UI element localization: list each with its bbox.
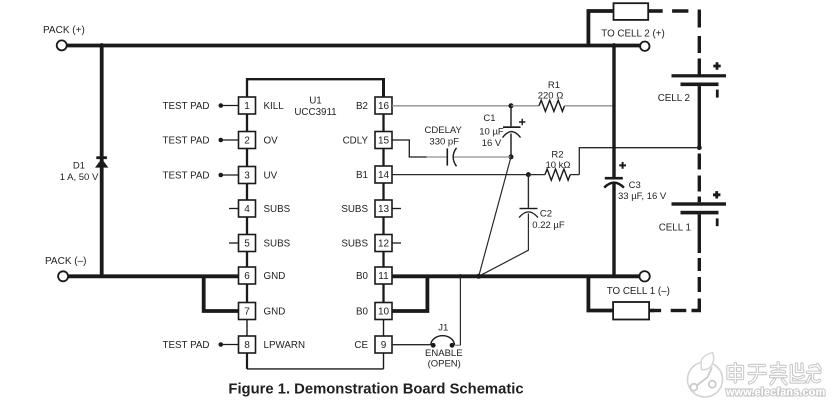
pin 15 box bbox=[375, 132, 392, 149]
label J1 bbox=[425, 323, 463, 370]
svg-text:CE: CE bbox=[354, 340, 368, 351]
junction dot B2 node bbox=[509, 103, 514, 108]
pin 16 box bbox=[375, 97, 392, 114]
svg-text:ENABLE: ENABLE bbox=[425, 348, 463, 359]
fuse jumper top (TO CELL 2 path) bbox=[614, 3, 649, 20]
svg-text:7: 7 bbox=[244, 307, 250, 318]
wire CELL1 negative stem down bbox=[698, 214, 701, 253]
watermark logo elecfans bbox=[688, 353, 723, 398]
resistor R1 bbox=[511, 100, 612, 111]
wire jumper top right lead bbox=[648, 9, 663, 13]
wire C3 drop from PACK+ rail bbox=[612, 46, 615, 178]
svg-text:www.elecfans.com: www.elecfans.com bbox=[725, 387, 825, 399]
svg-text:TO CELL 1 (–): TO CELL 1 (–) bbox=[607, 286, 670, 297]
pin 5 box bbox=[239, 235, 256, 252]
wire dashed mid node down to CELL 1 bbox=[698, 154, 701, 203]
svg-text:2: 2 bbox=[244, 136, 250, 147]
capacitor C3 bbox=[604, 162, 626, 188]
junction dot PACK+ rail / C3 drop bbox=[612, 43, 617, 48]
svg-text:CELL 1: CELL 1 bbox=[659, 223, 691, 234]
svg-text:6: 6 bbox=[244, 271, 250, 282]
pin 6 box bbox=[239, 267, 256, 284]
diode D1 bbox=[95, 156, 108, 167]
svg-text:PACK (–): PACK (–) bbox=[45, 256, 87, 267]
svg-text:SUBS: SUBS bbox=[264, 239, 291, 250]
svg-text:220 Ω: 220 Ω bbox=[538, 90, 564, 101]
junction dot at left vertical / PACK+ rail bbox=[99, 43, 104, 48]
svg-text:8: 8 bbox=[244, 340, 250, 351]
wire branch down to bottom jumper bbox=[588, 276, 613, 310]
svg-text:SUBS: SUBS bbox=[341, 204, 368, 215]
svg-text:TEST PAD: TEST PAD bbox=[163, 101, 210, 112]
pin 13 box bbox=[375, 200, 392, 217]
capacitor C1 bbox=[503, 106, 526, 157]
wire R2 up and right to mid-cell node bbox=[579, 148, 699, 175]
wire stub pin 12 bbox=[392, 242, 401, 244]
svg-text:R1: R1 bbox=[548, 80, 560, 91]
svg-text:10 kΩ: 10 kΩ bbox=[545, 160, 570, 171]
watermark chinese text bbox=[728, 363, 820, 384]
svg-text:33 µF, 16 V: 33 µF, 16 V bbox=[618, 191, 667, 202]
wire pin15 CDLY to CDELAY cap bbox=[392, 140, 427, 157]
svg-text:16 V: 16 V bbox=[482, 138, 502, 149]
junction dot B1 node bbox=[526, 172, 531, 177]
svg-text:C2: C2 bbox=[540, 208, 552, 219]
wire dashed CELL1 to bottom corner bbox=[653, 258, 700, 311]
svg-text:CDLY: CDLY bbox=[343, 136, 369, 147]
node PACK (+) terminal bbox=[43, 25, 85, 50]
wire left vertical rail (PACK+ to PACK-) bbox=[100, 46, 104, 277]
svg-text:TEST PAD: TEST PAD bbox=[163, 340, 210, 351]
test pad pin 3 bbox=[163, 171, 239, 182]
wire stub pin 4 bbox=[229, 208, 239, 210]
wire PACK(+) main horizontal rail bbox=[67, 44, 640, 48]
svg-text:10: 10 bbox=[378, 307, 390, 318]
svg-text:OV: OV bbox=[264, 136, 279, 147]
svg-text:4: 4 bbox=[244, 204, 250, 215]
wire diagonal CDLY node to B0 rail bbox=[479, 157, 511, 276]
svg-text:SUBS: SUBS bbox=[341, 239, 368, 250]
pin 11 box bbox=[375, 267, 392, 284]
jumper J1 bbox=[431, 336, 461, 348]
svg-text:C3: C3 bbox=[629, 180, 641, 191]
wire pin9 CE to J1 bbox=[392, 344, 431, 346]
svg-text:SUBS: SUBS bbox=[264, 204, 291, 215]
node TO CELL 2 (+) terminal bbox=[601, 29, 664, 51]
label U1 UCC3911 bbox=[294, 96, 336, 118]
svg-text:PACK (+): PACK (+) bbox=[43, 25, 85, 36]
capacitor CDELAY 330pF bbox=[427, 148, 512, 167]
svg-text:11: 11 bbox=[378, 271, 389, 282]
node PACK (-) terminal bbox=[45, 256, 87, 281]
wire branch up to top jumper bbox=[588, 11, 613, 46]
svg-text:5: 5 bbox=[244, 239, 250, 250]
svg-text:13: 13 bbox=[378, 204, 390, 215]
wire C3 bottom stem to B0 rail bbox=[612, 184, 615, 277]
label C1 value bbox=[479, 113, 504, 149]
svg-text:1: 1 bbox=[244, 101, 250, 112]
svg-text:10 µF: 10 µF bbox=[479, 127, 504, 138]
svg-text:12: 12 bbox=[378, 239, 390, 250]
wire dashed corner vertical down to CELL 2 bbox=[698, 10, 701, 75]
svg-text:KILL: KILL bbox=[264, 101, 285, 112]
svg-text:UV: UV bbox=[264, 171, 278, 182]
pin 3 box bbox=[239, 167, 256, 184]
wire J1 up to B0 rail bbox=[459, 276, 461, 345]
svg-text:15: 15 bbox=[378, 136, 390, 147]
battery CELL 2 bbox=[672, 62, 727, 97]
wire CELL2 negative stem down to mid node bbox=[698, 86, 701, 148]
op-amp U1 UCC3911 IC body bbox=[247, 78, 384, 369]
test pad pin 8 bbox=[163, 340, 239, 351]
battery CELL 1 bbox=[672, 191, 727, 226]
svg-text:B1: B1 bbox=[356, 170, 368, 181]
fuse jumper bottom (TO CELL 1 path) bbox=[613, 302, 649, 320]
svg-text:TO CELL 2 (+): TO CELL 2 (+) bbox=[601, 29, 664, 40]
node TO CELL 1 (-) terminal bbox=[607, 271, 670, 297]
wire jumper bottom right lead bbox=[649, 309, 654, 313]
svg-text:14: 14 bbox=[378, 170, 390, 181]
svg-text:GND: GND bbox=[264, 307, 286, 318]
pin 2 box bbox=[239, 132, 256, 149]
label R2 value bbox=[545, 149, 570, 171]
test pad pin 2 bbox=[163, 136, 239, 147]
svg-text:GND: GND bbox=[264, 271, 286, 282]
pin 9 box bbox=[375, 336, 392, 353]
test pad pin 1 bbox=[163, 101, 239, 112]
svg-text:CDELAY: CDELAY bbox=[425, 125, 463, 136]
svg-text:B0: B0 bbox=[356, 271, 369, 282]
label C3 value bbox=[618, 180, 667, 202]
svg-text:LPWARN: LPWARN bbox=[264, 340, 306, 351]
capacitor C2 bbox=[479, 175, 538, 277]
svg-text:9: 9 bbox=[381, 340, 387, 351]
svg-text:D1: D1 bbox=[73, 161, 85, 172]
wire pin14 B1 to R2 node bbox=[392, 174, 528, 176]
svg-text:16: 16 bbox=[378, 101, 390, 112]
svg-text:J1: J1 bbox=[438, 323, 448, 334]
svg-text:Figure 1. Demonstration Board: Figure 1. Demonstration Board Schematic bbox=[228, 382, 523, 398]
svg-text:R2: R2 bbox=[551, 149, 563, 160]
pin 7 box bbox=[239, 303, 256, 320]
label pin names left column bbox=[264, 101, 306, 351]
svg-text:CELL 2: CELL 2 bbox=[658, 93, 690, 104]
wire GND pin7 branch (down and right) bbox=[204, 276, 239, 311]
pin 10 box bbox=[375, 303, 392, 320]
wire dashed to cell2 plus (horizontal dash) bbox=[672, 9, 688, 13]
label R1 value bbox=[538, 80, 564, 102]
wire pin10 B0 branch bbox=[392, 276, 427, 311]
svg-text:0.22 µF: 0.22 µF bbox=[532, 220, 565, 231]
svg-text:(OPEN): (OPEN) bbox=[428, 359, 461, 370]
junction dot J1 drop bbox=[458, 274, 462, 278]
pin 12 box bbox=[375, 235, 392, 252]
label C2 value bbox=[532, 208, 565, 231]
svg-text:C1: C1 bbox=[483, 113, 495, 124]
svg-text:B2: B2 bbox=[356, 101, 368, 112]
wire B0 bottom rail bbox=[392, 274, 640, 278]
wire stub pin 5 bbox=[229, 242, 239, 244]
wire stub pin 13 bbox=[392, 208, 401, 210]
svg-text:330 pF: 330 pF bbox=[429, 137, 459, 148]
label CDELAY value bbox=[425, 125, 463, 148]
junction dot CDLY node bbox=[509, 154, 514, 159]
pin 8 box bbox=[239, 336, 256, 353]
svg-text:U1: U1 bbox=[309, 96, 322, 107]
svg-text:3: 3 bbox=[244, 171, 250, 182]
junction dot diagonals node bbox=[476, 274, 481, 279]
pin 4 box bbox=[239, 200, 256, 217]
svg-text:B0: B0 bbox=[356, 307, 369, 318]
pin 14 box bbox=[375, 166, 392, 183]
wire PACK(-) horizontal to pin 6 bbox=[68, 274, 238, 278]
svg-text:1 A, 50 V: 1 A, 50 V bbox=[60, 172, 99, 183]
label pin names right column bbox=[341, 101, 368, 351]
label D1 value bbox=[60, 161, 99, 184]
resistor R2 bbox=[528, 169, 579, 180]
svg-text:TEST PAD: TEST PAD bbox=[163, 136, 210, 147]
pin 1 box bbox=[239, 97, 256, 114]
svg-text:UCC3911: UCC3911 bbox=[294, 107, 336, 118]
wire pin16 B2 to R1 node bbox=[392, 105, 511, 107]
svg-text:TEST PAD: TEST PAD bbox=[163, 171, 210, 182]
junction dot mid-cell node bbox=[697, 145, 702, 150]
